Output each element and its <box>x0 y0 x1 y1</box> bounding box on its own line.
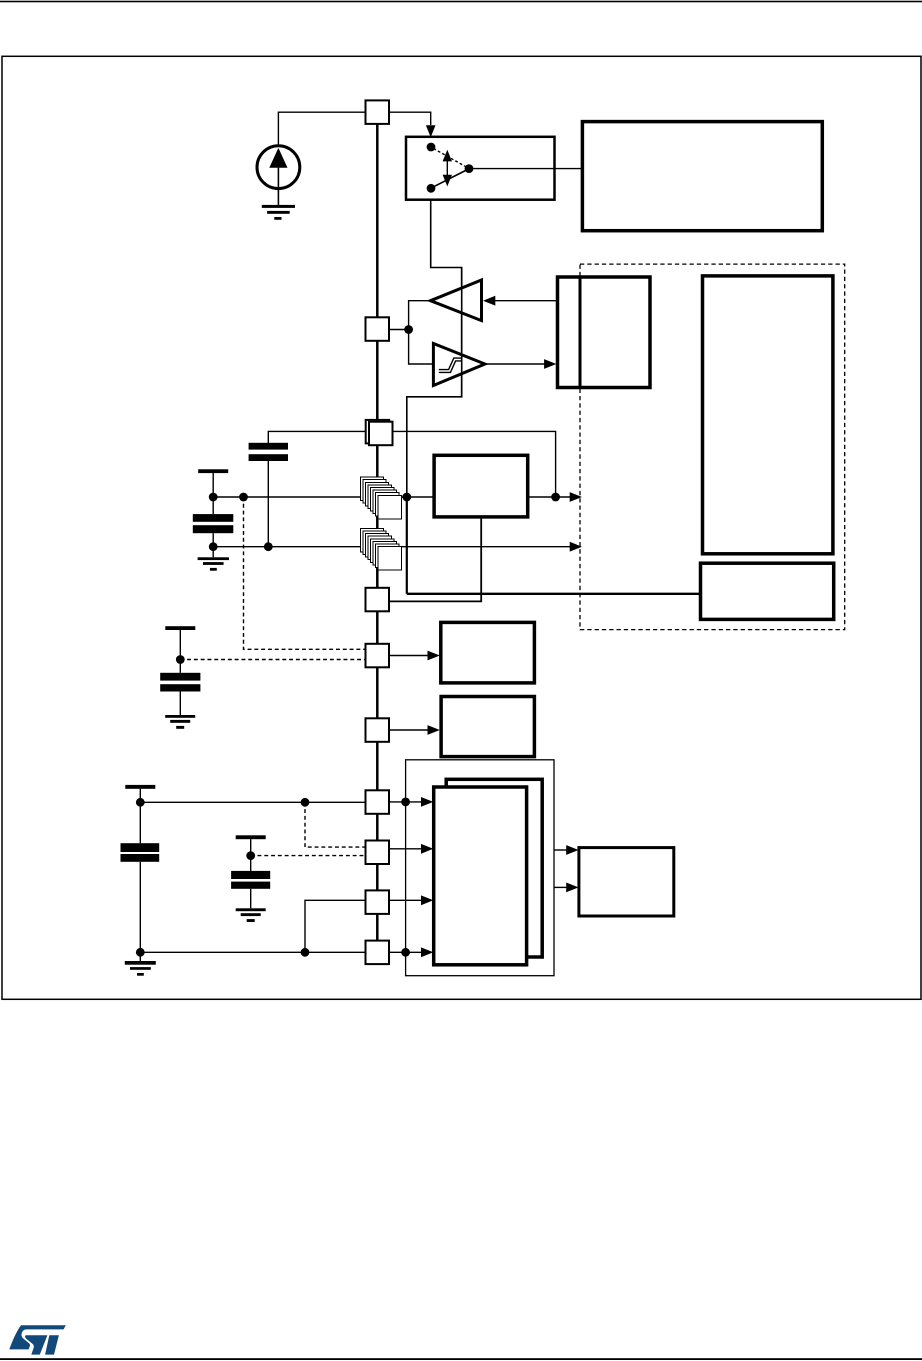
thick wire to lower right box <box>407 593 701 595</box>
box4 (middle block) <box>434 455 528 517</box>
switch dashed position <box>434 149 467 167</box>
power stage back sheet <box>446 779 542 957</box>
ground under C3 <box>125 961 156 976</box>
switch throw contact upper <box>427 143 436 152</box>
C3 lower stem <box>139 862 141 961</box>
current source arrow <box>269 148 287 168</box>
wire pad13 to power stage <box>389 951 422 953</box>
buffer amp (points left) <box>431 280 482 321</box>
wire left net y497 <box>213 496 434 498</box>
ground under C2 <box>198 557 229 570</box>
wire cap to node column <box>268 431 555 497</box>
dashed wire node to pad11 upper <box>305 802 366 847</box>
capacitor C3 <box>121 843 160 862</box>
pad stack lower (multi-pin) <box>360 528 401 570</box>
stub wire to output box upper <box>554 849 568 851</box>
arrowhead pad11 <box>421 844 433 854</box>
switch pole contact <box>465 164 474 173</box>
switch throw contact lower <box>427 184 436 193</box>
dashed wire from node B down to pad7 <box>244 497 366 649</box>
junction dot feedback top <box>401 798 410 807</box>
arrowhead output upper <box>566 845 578 855</box>
arrowhead into switch box <box>426 125 436 137</box>
wire node to buffer output <box>409 301 432 330</box>
pad2 <box>366 317 390 341</box>
pad10 <box>366 790 390 814</box>
pad5 double front <box>369 422 393 446</box>
wire vertical over amps <box>461 268 463 397</box>
pad1 (top) <box>366 100 390 124</box>
ST logo <box>9 1325 66 1354</box>
pad11 <box>366 841 390 865</box>
C5 lower stem <box>179 692 181 716</box>
pad stack upper (multi-pin) <box>360 477 401 519</box>
junction dot buffer node <box>404 325 413 334</box>
wire box4 out to arrow <box>528 496 570 498</box>
feedback loop thin rectangle <box>406 760 554 976</box>
power stage front sheet <box>434 787 527 965</box>
junction dot T4 <box>246 851 255 860</box>
wire switch pole to control box <box>473 168 582 170</box>
control box (top right) <box>582 122 822 231</box>
wire pad1 to current source <box>278 112 365 146</box>
logic box divider <box>579 277 582 388</box>
terminal pin T5 <box>165 626 195 630</box>
tall box (right) <box>703 276 833 554</box>
wire pad1 to switch box <box>389 112 431 125</box>
junction dot stack1 out <box>402 493 411 502</box>
junction dot C3 bottom <box>136 948 145 957</box>
wire pad7 to box7 <box>389 655 428 657</box>
T5 stem <box>179 630 181 673</box>
pad13 <box>366 941 390 965</box>
arrowhead into box7 <box>428 651 440 661</box>
current source stem <box>277 168 279 205</box>
ground under C4 <box>236 908 266 922</box>
wire into buffer input <box>495 300 558 302</box>
wire C3 bottom to pad13 <box>140 951 365 953</box>
arrowhead into logic box <box>544 359 556 369</box>
hysteresis glyph <box>439 358 462 372</box>
wire node to schmitt input <box>409 330 435 365</box>
switch solid position <box>434 170 467 187</box>
junction dot box4 out <box>551 493 560 502</box>
arrowhead output lower <box>566 883 578 893</box>
wire pad11 to power stage <box>389 848 422 850</box>
junction dot feedback bottom <box>401 948 410 957</box>
junction dot node B <box>239 493 248 502</box>
output box <box>579 848 674 916</box>
C2 lower stem <box>212 533 214 557</box>
wire pad10 to power stage <box>389 801 422 803</box>
junction dot T5 <box>176 655 185 664</box>
capacitor C2 stem <box>212 497 214 514</box>
terminal pin T3 <box>125 785 155 789</box>
wire pad2 to buffer node <box>389 329 409 331</box>
wire node to thick rail <box>406 497 408 594</box>
box8 <box>441 697 534 757</box>
lower right wide box <box>701 563 834 619</box>
ground under current source <box>262 205 295 220</box>
pad6 <box>366 588 390 612</box>
dashed box (digital section outline) <box>580 264 845 629</box>
capacitor C4 <box>231 871 270 889</box>
arrowhead pad10 <box>421 797 433 807</box>
arrowhead into buffer <box>483 296 495 306</box>
wire left net y546.7 <box>213 546 570 548</box>
junction dot T1 net <box>209 493 218 502</box>
logic box with divider <box>558 277 651 388</box>
switch box U2 <box>406 137 555 200</box>
wire switch lower contact routing <box>407 200 462 498</box>
arrowhead to dashed box y546.7 <box>570 542 582 552</box>
dashed wire T4 to pad11 lower <box>251 855 366 857</box>
arrowhead to dashed box y497 <box>570 492 582 502</box>
wire pad9 to box8 <box>389 729 428 731</box>
C4 lower stem <box>250 889 252 909</box>
arrowhead pad13 <box>421 947 433 957</box>
box7 <box>441 622 535 683</box>
T1 stem <box>212 473 214 497</box>
wire schmitt output <box>485 363 545 365</box>
figure frame <box>2 56 921 999</box>
ground under C5 <box>165 715 195 729</box>
terminal pin T4 <box>236 835 266 839</box>
switch toggle double arrow <box>443 150 452 187</box>
wire node up to pad12 <box>305 900 366 952</box>
main pin bus <box>376 124 379 941</box>
capacitor C2 <box>193 514 234 533</box>
current source I1 <box>257 146 300 189</box>
pad7 <box>366 644 390 668</box>
junction dot C2 net <box>209 542 218 551</box>
terminal pin T1 <box>198 469 228 473</box>
wire box4 bottom to pad6 <box>389 517 481 602</box>
schmitt trigger amp (points right) <box>433 344 485 386</box>
wire pad12 to power stage <box>389 899 422 901</box>
wire T3 net to pad10 <box>140 801 365 803</box>
C1 lower stem <box>267 461 269 547</box>
capacitor C5 <box>160 673 200 692</box>
pad12 <box>366 890 390 914</box>
T4 stem <box>250 839 252 871</box>
T3 stem <box>139 789 141 843</box>
junction dot T3 <box>136 798 145 807</box>
arrowhead into box8 <box>428 725 440 735</box>
arrowhead pad12 <box>421 895 433 905</box>
pad9 <box>366 718 390 742</box>
junction dot C1 bottom <box>264 542 273 551</box>
dashed wire terminal T5 to pad7 <box>180 659 365 661</box>
pad5 double back <box>366 420 390 444</box>
capacitor C1 (upper) <box>249 443 288 461</box>
junction dot mid y802 <box>301 798 310 807</box>
header rule <box>0 1 922 3</box>
stub wire to output box lower <box>554 886 568 888</box>
junction dot mid y952 <box>301 948 310 957</box>
footer rule <box>0 1358 922 1360</box>
